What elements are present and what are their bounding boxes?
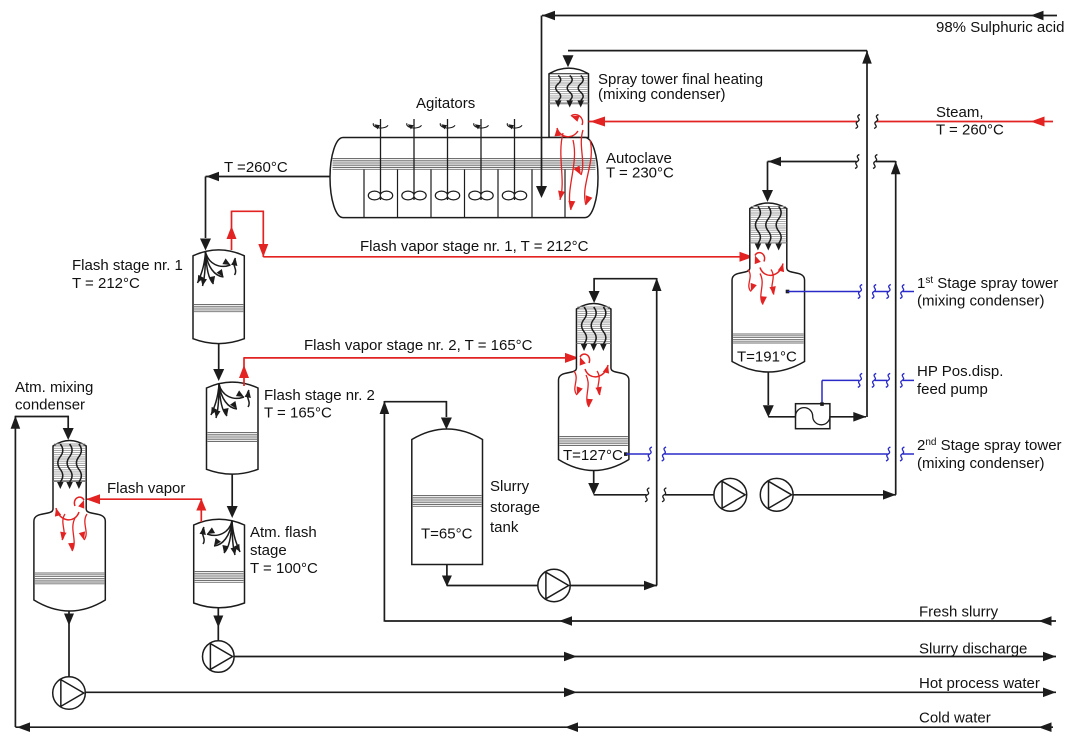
svg-text:HP Pos.disp.: HP Pos.disp.: [917, 363, 1003, 380]
svg-text:1st Stage spray tower: 1st Stage spray tower: [917, 275, 1058, 292]
svg-text:T = 260°C: T = 260°C: [936, 122, 1004, 139]
svg-text:(mixing condenser): (mixing condenser): [917, 293, 1045, 310]
svg-text:T = 212°C: T = 212°C: [72, 275, 140, 292]
svg-text:feed pump: feed pump: [917, 381, 988, 398]
svg-text:Flash stage nr. 2: Flash stage nr. 2: [264, 387, 375, 404]
svg-text:T=65°C: T=65°C: [421, 526, 473, 543]
pipe: cold water: [15, 726, 1053, 728]
agitators (5 shafts with motors and blades): [380, 119, 382, 200]
wire: riser to 1st tower feed (bus x=896): [895, 161, 897, 495]
wire: pump to 2nd tower riser: [570, 585, 657, 587]
svg-text:Fresh slurry: Fresh slurry: [919, 604, 999, 621]
svg-text:T=127°C: T=127°C: [563, 447, 623, 464]
wire: atm flash outlet to pump: [217, 609, 219, 641]
wire: 1st tower outlet to HP pump: [767, 373, 769, 406]
vessel: flash stage nr. 1: [193, 250, 244, 344]
svg-text:stage: stage: [250, 542, 287, 559]
wire: pumps to riser x=896: [793, 494, 896, 496]
wire: fresh slurry riser to slurry tank: [383, 401, 385, 622]
wire: HP pump discharge: [830, 416, 866, 418]
callout: 1st stage spray tower (blue): [786, 290, 790, 294]
pump: transfer pump A: [714, 478, 747, 511]
red vapor arrows in final heating tower: [571, 115, 583, 125]
wire: acid downcomer into autoclave: [541, 16, 543, 187]
svg-text:Cold water: Cold water: [919, 710, 991, 727]
spray fan flash stage 2: [211, 384, 244, 418]
pipe: slurry discharge: [234, 656, 1056, 658]
pipe: flash vapor stage nr.2 (red): [243, 357, 245, 386]
pump: hot process water pump: [53, 677, 86, 710]
svg-text:Steam,: Steam,: [936, 104, 984, 121]
svg-text:condenser: condenser: [15, 397, 85, 414]
acid downcomer arrow: [541, 138, 543, 187]
svg-text:Flash stage nr. 1: Flash stage nr. 1: [72, 257, 183, 274]
pipe: flash vapor to atm condenser (red): [200, 499, 202, 523]
pipe: 98% sulphuric acid header: [542, 15, 1057, 17]
svg-text:Agitators: Agitators: [416, 95, 475, 112]
svg-text:(mixing condenser): (mixing condenser): [598, 86, 726, 103]
svg-text:T = 230°C: T = 230°C: [606, 165, 674, 182]
wire: 2nd tower outlet: [593, 471, 595, 483]
svg-text:Flash vapor stage nr. 1, T = 2: Flash vapor stage nr. 1, T = 212°C: [360, 238, 589, 255]
svg-text:T=191°C: T=191°C: [737, 349, 797, 366]
wire: flash1 bottom to flash2: [218, 344, 220, 371]
pump: slurry discharge pump: [203, 641, 235, 673]
wire: riser to 2nd stage spray tower (bus x=657): [656, 278, 658, 586]
wire: slurry tank outlet: [446, 565, 448, 586]
svg-text:Flash vapor: Flash vapor: [107, 480, 185, 497]
vessel: spray tower final heating (mixing condenser): [549, 68, 589, 137]
svg-text:T = 100°C: T = 100°C: [250, 560, 318, 577]
red vapor arrows in 2nd tower: [580, 354, 590, 363]
svg-text:Slurry: Slurry: [490, 478, 530, 495]
svg-text:T = 165°C: T = 165°C: [264, 405, 332, 422]
pump: slurry storage pump: [538, 569, 570, 601]
red vapor arrows in 1st tower: [755, 253, 765, 262]
pipe: hot process water: [85, 691, 1056, 693]
callout: 2nd stage spray tower (blue): [624, 452, 628, 456]
vessel: flash stage nr. 2: [207, 382, 259, 474]
pump: HP pos.disp. feed pump: [796, 404, 830, 429]
vessel: autoclave: [330, 138, 598, 218]
wire: HP pump discharge riser: [866, 51, 868, 417]
wire: feed to spray tower final heating: [568, 50, 867, 52]
wire: feed to 1st stage spray tower: [768, 161, 857, 163]
spray fan flash stage 1: [198, 252, 231, 286]
pipe: flash vapor stage nr.1 (red): [231, 211, 233, 250]
svg-text:2nd Stage spray tower: 2nd Stage spray tower: [917, 437, 1062, 454]
pipe: steam supply (red): [589, 121, 858, 123]
svg-text:T =260°C: T =260°C: [224, 159, 288, 176]
svg-text:98% Sulphuric acid: 98% Sulphuric acid: [936, 19, 1064, 36]
svg-text:Flash vapor stage nr. 2, T = 1: Flash vapor stage nr. 2, T = 165°C: [304, 337, 533, 354]
svg-text:Atm. flash: Atm. flash: [250, 524, 317, 541]
vessel: slurry storage tank: [412, 429, 483, 565]
red vapor arrows in atm condenser: [74, 497, 84, 506]
spray fan atm flash stage: [207, 521, 240, 555]
wire: condenser outlet to pump: [68, 611, 70, 678]
vessel: atm. flash stage: [194, 519, 245, 608]
pipe: fresh slurry: [385, 620, 1056, 622]
wire: flash2 bottom to atm flash stage: [231, 475, 233, 508]
svg-text:tank: tank: [490, 519, 519, 536]
svg-text:storage: storage: [490, 499, 540, 516]
svg-text:Atm. mixing: Atm. mixing: [15, 379, 93, 396]
pipe: autoclave outlet T=260C to flash stage 1: [206, 176, 331, 178]
vessel: 1st stage spray tower T=191: [732, 203, 805, 372]
vessel: 2nd stage spray tower T=127: [559, 304, 629, 471]
callout: HP pos.disp. feed pump (blue): [821, 380, 823, 404]
svg-text:Slurry discharge: Slurry discharge: [919, 641, 1027, 658]
pump: transfer pump B: [760, 478, 793, 511]
wire: cold water riser to atm condenser: [14, 416, 16, 727]
vessel: atm. mixing condenser: [34, 441, 105, 612]
svg-text:Hot process water: Hot process water: [919, 675, 1040, 692]
svg-text:(mixing condenser): (mixing condenser): [917, 455, 1045, 472]
